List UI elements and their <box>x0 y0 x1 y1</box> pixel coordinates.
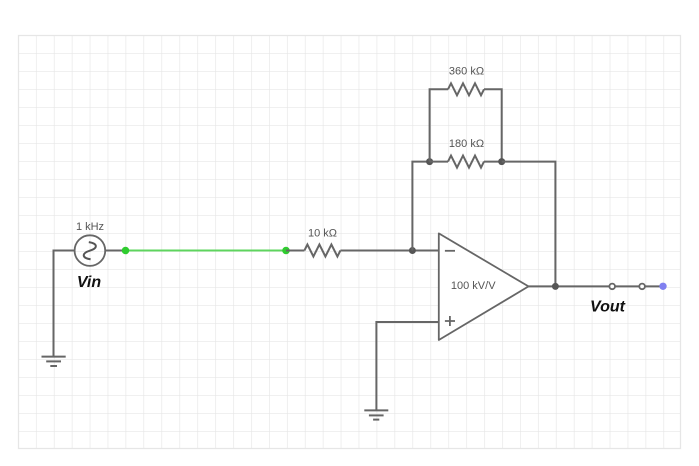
svg-text:1 kHz: 1 kHz <box>76 221 104 233</box>
svg-text:Vout: Vout <box>590 299 626 316</box>
svg-text:10 kΩ: 10 kΩ <box>308 228 337 240</box>
svg-text:Vin: Vin <box>77 274 102 291</box>
op-amp U1 <box>439 233 529 340</box>
svg-text:180 kΩ: 180 kΩ <box>449 138 484 150</box>
ground (non-inverting input) <box>364 410 388 419</box>
svg-text:360 kΩ: 360 kΩ <box>449 66 484 78</box>
plus input symbol <box>445 316 455 326</box>
wire R3 right to right vertical <box>484 89 502 161</box>
node C (right feedback junction) <box>498 158 505 165</box>
wire source to node <box>105 250 125 252</box>
wire R1 to inverting input <box>340 250 438 252</box>
green node (right) <box>282 247 290 255</box>
resistor R1 10 kOhm <box>304 245 340 257</box>
ground (under Vin) <box>42 357 66 366</box>
output junction node <box>552 283 559 290</box>
output wire <box>529 285 664 287</box>
resistor R2 180 kOhm <box>448 156 484 168</box>
resistor R3 360 kOhm <box>448 83 484 95</box>
wire junction up to feedback network <box>412 162 429 251</box>
green wire (highlighted net) <box>126 250 287 252</box>
wire node to resistor R1 <box>286 250 304 252</box>
wire R2 to right feedback junction <box>484 161 502 163</box>
minus input symbol <box>445 250 455 252</box>
green node (left) <box>122 247 130 255</box>
open terminal 1 <box>609 284 615 290</box>
svg-text:100 kV/V: 100 kV/V <box>451 280 496 292</box>
wire right junction to output junction <box>502 162 556 287</box>
sine symbol inside source <box>84 242 96 259</box>
wire left junction to R2 <box>430 161 448 163</box>
voltage source V1 (Vin, 1 kHz AC) <box>75 235 106 266</box>
node A (junction at inverting input) <box>409 247 416 254</box>
wire plus input <box>376 322 438 410</box>
wire from Vin left terminal to ground <box>54 251 75 357</box>
node B (left feedback junction) <box>426 158 433 165</box>
open terminal 2 <box>639 284 645 290</box>
blue probe terminal <box>659 283 666 290</box>
wire left junction up to R3 row <box>430 89 448 161</box>
